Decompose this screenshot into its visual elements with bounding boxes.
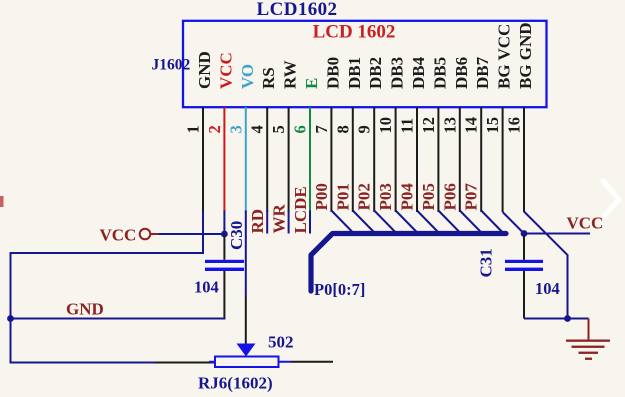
svg-text:P06: P06 [440, 183, 459, 210]
svg-text:3: 3 [226, 125, 245, 133]
pin number 1 [184, 125, 203, 133]
pin 3 wire (top segment) [245, 107, 247, 212]
pin number 16 [505, 117, 524, 134]
pin number 7 [312, 125, 331, 133]
svg-text:14: 14 [462, 117, 481, 134]
pin 7 wire (top segment) [330, 107, 332, 212]
pin name RW (pin 5) [281, 60, 300, 89]
pin name DB0 (pin 7) [323, 57, 342, 89]
pin name DB5 (pin 12) [430, 57, 449, 89]
svg-text:VCC: VCC [567, 214, 604, 233]
pin 11 wire (top segment) [416, 107, 418, 212]
pin 5 wire (top segment) [288, 107, 290, 212]
pin number 13 [440, 117, 459, 134]
svg-text:5: 5 [269, 125, 288, 133]
wire pin3 VO navy segment [245, 211, 247, 296]
svg-text:DB6: DB6 [452, 57, 471, 89]
svg-text:DB4: DB4 [409, 56, 428, 89]
wire pin 13 diagonal to bus (P06) [460, 211, 483, 234]
pin number 2 [205, 125, 224, 133]
net label LCDE [291, 186, 310, 233]
svg-text:RW: RW [281, 60, 300, 89]
svg-text:502: 502 [268, 333, 294, 352]
wire VCC horizontal (right) [524, 233, 590, 235]
value 502 [268, 333, 294, 352]
pin 12 wire (top segment) [437, 107, 439, 212]
wire GND horizontal [11, 318, 226, 320]
svg-text:DB5: DB5 [430, 57, 449, 89]
pin 15 wire (top segment) [502, 107, 504, 212]
svg-text:VCC: VCC [100, 226, 137, 245]
pin number 11 [398, 118, 417, 134]
wire pin 6 stub to net label LCDE [309, 211, 311, 234]
svg-text:BG GND: BG GND [516, 22, 535, 89]
potentiometer right stub [279, 361, 292, 363]
net label GND [66, 300, 104, 319]
power label VCC (right) [567, 214, 604, 233]
svg-text:RJ6(1602): RJ6(1602) [198, 374, 273, 393]
net label P06 [440, 183, 459, 210]
svg-text:RS: RS [259, 67, 278, 89]
svg-text:11: 11 [398, 118, 417, 134]
svg-text:2: 2 [205, 125, 224, 133]
pin number 12 [419, 117, 438, 134]
junction dot pin15/VCC/C31 [521, 230, 528, 237]
value 104 (C31) [535, 279, 560, 298]
capacitor C30 top lead [223, 236, 225, 260]
wire pin3 VO black segment to wiper [245, 295, 247, 344]
pin 8 wire (top segment) [352, 107, 354, 212]
pin 14 wire (top segment) [480, 107, 482, 212]
svg-text:BG VCC: BG VCC [495, 24, 514, 89]
wire GND rail black segment to pot [155, 362, 215, 364]
svg-text:P02: P02 [355, 183, 374, 210]
svg-text:P01: P01 [333, 183, 352, 210]
svg-text:E: E [302, 78, 321, 89]
svg-text:15: 15 [483, 117, 502, 134]
svg-text:P0[0:7]: P0[0:7] [314, 280, 365, 299]
net label WR [270, 204, 289, 234]
pin 4 wire (top segment) [266, 107, 268, 212]
svg-text:C30: C30 [227, 221, 246, 250]
net label P00 [312, 183, 331, 210]
pin name DB6 (pin 13) [452, 57, 471, 89]
capacitor C31 plates [505, 260, 543, 271]
part label LCD 1602 [313, 22, 396, 43]
label C31 [477, 248, 496, 277]
left edge red artifact [0, 196, 4, 207]
svg-text:P05: P05 [419, 183, 438, 210]
wire pin 8 diagonal to bus (P01) [353, 211, 376, 234]
svg-text:DB0: DB0 [323, 57, 342, 89]
connector title LCD1602 [257, 0, 338, 20]
pin 1 wire (top segment) [202, 107, 204, 212]
svg-text:104: 104 [194, 278, 219, 297]
junction dot GND rail [7, 315, 14, 322]
svg-text:J1602: J1602 [152, 57, 191, 74]
wire pot right end [291, 361, 333, 363]
svg-text:1: 1 [184, 125, 203, 133]
pin number 10 [376, 117, 395, 134]
net label P01 [333, 183, 352, 210]
wire junction to ground symbol [568, 318, 589, 320]
pin name DB4 (pin 11) [409, 56, 428, 89]
wire pin 5 stub to net label WR [288, 211, 290, 234]
pin number 9 [355, 125, 374, 133]
net label P07 [462, 183, 481, 211]
refdes J1602 [152, 57, 191, 74]
wire pin15 BG VCC diagonal to VCC junction [503, 212, 524, 234]
refdes RJ6(1602) [198, 374, 273, 393]
svg-text:WR: WR [270, 204, 289, 234]
net label P03 [376, 183, 395, 210]
pin 13 wire (top segment) [459, 107, 461, 212]
pin name RS (pin 4) [259, 67, 278, 89]
pin name DB7 (pin 14) [473, 56, 492, 89]
bus P0[0:7] [311, 234, 506, 292]
pin number 8 [333, 125, 352, 133]
svg-text:16: 16 [505, 117, 524, 134]
capacitor C30 bottom lead [223, 271, 225, 318]
svg-text:13: 13 [440, 117, 459, 134]
capacitor C31 top lead [523, 235, 525, 260]
svg-text:C31: C31 [477, 248, 496, 277]
svg-text:7: 7 [312, 125, 331, 133]
svg-text:VO: VO [238, 64, 257, 89]
wire pin2 VCC to junction [223, 211, 225, 235]
wire pin 7 diagonal to bus (P00) [331, 211, 354, 234]
net label P05 [419, 183, 438, 210]
bus label P0[0:7] [314, 280, 365, 299]
pin number 15 [483, 117, 502, 134]
svg-text:10: 10 [376, 117, 395, 134]
wire C31 bottom to ground junction [524, 318, 568, 320]
wire pin 11 diagonal to bus (P04) [417, 211, 440, 234]
svg-text:P00: P00 [312, 183, 331, 210]
pin 6 wire (top segment) [309, 107, 311, 212]
svg-text:P03: P03 [376, 183, 395, 210]
value 104 (C30) [194, 278, 219, 297]
pin number 5 [269, 125, 288, 133]
svg-text:6: 6 [291, 125, 310, 133]
svg-text:12: 12 [419, 117, 438, 134]
wire pin 4 stub to net label RD [266, 211, 268, 234]
connector J1602 body [183, 21, 547, 107]
net label P02 [355, 183, 374, 210]
pin name GND (pin 1) [195, 51, 214, 89]
svg-text:4: 4 [248, 125, 267, 133]
capacitor C31 bottom lead [523, 271, 525, 319]
svg-text:9: 9 [355, 125, 374, 133]
capacitor C30 plates [205, 260, 244, 271]
wire pin 9 diagonal to bus (P02) [374, 211, 397, 234]
pin number 4 [248, 125, 267, 133]
svg-text:LCD 1602: LCD 1602 [313, 22, 396, 43]
pin name DB3 (pin 10) [388, 57, 407, 89]
svg-text:LCDE: LCDE [291, 186, 310, 233]
pin 10 wire (top segment) [395, 107, 397, 212]
pin number 3 [226, 125, 245, 133]
wire VCC port to pin2 junction [159, 233, 224, 235]
pin 2 wire (top segment) [223, 107, 225, 212]
pin name DB1 (pin 8) [345, 57, 364, 89]
wire pin 10 diagonal to bus (P03) [396, 211, 419, 234]
potentiometer RJ6 body [215, 357, 279, 368]
svg-text:104: 104 [535, 279, 560, 298]
pin 16 wire (top segment) [523, 107, 525, 212]
wire pin1 GND down-left rail [11, 211, 204, 363]
svg-text:RD: RD [248, 209, 267, 234]
svg-text:LCD1602: LCD1602 [257, 0, 338, 20]
svg-text:P04: P04 [398, 183, 417, 211]
pin name VO (pin 3) [238, 64, 257, 89]
wire pin16 BG GND diagonal and down [524, 212, 568, 319]
svg-text:VCC: VCC [216, 52, 235, 89]
junction dot VCC/pin2/C30 [221, 231, 228, 238]
power port VCC (left) [100, 226, 160, 245]
svg-text:8: 8 [333, 125, 352, 133]
ground symbol bars [566, 340, 610, 360]
pin number 6 [291, 125, 310, 133]
svg-text:GND: GND [66, 300, 104, 319]
pin name BG VCC (pin 15) [495, 24, 514, 89]
svg-text:DB7: DB7 [473, 56, 492, 89]
svg-text:GND: GND [195, 51, 214, 89]
junction dot ground rail [564, 315, 571, 322]
pin 9 wire (top segment) [373, 107, 375, 212]
pin name BG GND (pin 16) [516, 22, 535, 89]
pin number 14 [462, 117, 481, 134]
net label RD [248, 209, 267, 234]
potentiometer RJ6 wiper arrow [237, 344, 256, 357]
wire pin 14 diagonal to bus (P07) [481, 211, 504, 234]
label C30 [227, 221, 246, 250]
pin name VCC (pin 2) [216, 52, 235, 89]
wire pin 12 diagonal to bus (P05) [438, 211, 461, 234]
ground symbol stem [588, 319, 590, 341]
svg-text:DB2: DB2 [366, 57, 385, 89]
pin name E (pin 6) [302, 78, 321, 89]
svg-text:DB3: DB3 [388, 57, 407, 89]
white chevron overlay [603, 181, 619, 216]
potentiometer left stub [209, 361, 215, 363]
svg-text:P07: P07 [462, 183, 481, 211]
svg-text:DB1: DB1 [345, 57, 364, 89]
pin name DB2 (pin 9) [366, 57, 385, 89]
net label P04 [398, 183, 417, 211]
